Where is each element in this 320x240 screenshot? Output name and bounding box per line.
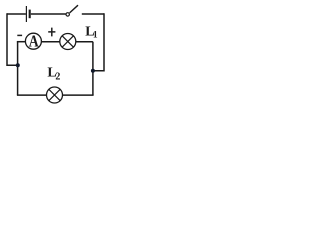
svg-text:2: 2: [55, 71, 60, 82]
junction dot right: [91, 69, 95, 73]
svg-text:1: 1: [93, 30, 98, 40]
junction dot left: [16, 63, 20, 67]
lamp L1: [60, 34, 76, 50]
wire left branch vertical: [17, 41, 19, 95]
wire lamp L2 to right branch: [62, 94, 93, 96]
wire right border down to junction level: [93, 13, 104, 70]
ammeter A1: [25, 33, 41, 50]
wire switch to top-right corner: [82, 13, 104, 15]
wire right branch vertical: [92, 42, 94, 95]
wire to ammeter: [17, 41, 26, 43]
switch (open): [66, 5, 78, 16]
wire battery to switch: [31, 13, 66, 15]
wire top-left segment: [7, 13, 26, 15]
wire ammeter to lamp L1: [41, 41, 60, 43]
wire bottom-left to lamp L2: [17, 94, 47, 96]
svg-text:A: A: [29, 33, 39, 50]
wire left border down and to junction: [7, 13, 18, 65]
minus polarity label: [17, 34, 22, 36]
lamp L2: [47, 87, 63, 103]
battery cell: [26, 6, 29, 22]
wire lamp L1 to right branch: [76, 41, 93, 43]
plus polarity label: [48, 28, 55, 37]
